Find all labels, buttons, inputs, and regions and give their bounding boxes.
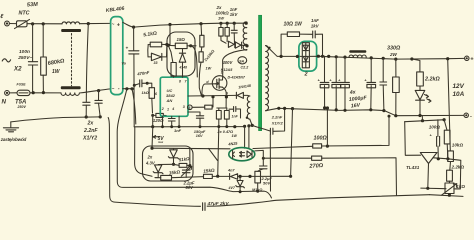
svg-text:1kΩ: 1kΩ — [142, 91, 149, 95]
diode feedback — [230, 174, 238, 180]
svg-text:250V~: 250V~ — [17, 55, 32, 61]
capacitor 2.2uF opto — [260, 166, 268, 169]
bridge rectifier KBL406 green box — [111, 17, 123, 95]
node HV2 — [168, 23, 171, 26]
node bulkneg — [133, 84, 136, 87]
mini bus nodes — [239, 190, 242, 193]
svg-text:1nF: 1nF — [232, 115, 239, 119]
svg-text:100n: 100n — [19, 49, 30, 55]
IC pin2 wire to bus — [162, 116, 164, 126]
svg-text:N: N — [2, 99, 7, 106]
transformer secondary winding — [266, 46, 269, 111]
bus to Y2 cap — [252, 125, 270, 130]
svg-text:100Ω: 100Ω — [429, 124, 441, 129]
top line riser to rail — [421, 116, 423, 121]
trimmer cap — [186, 166, 190, 170]
optocoupler green ellipse — [229, 148, 255, 161]
svg-text:2.2kΩ: 2.2kΩ — [424, 77, 440, 83]
opto right wire — [255, 150, 263, 165]
svg-text:47μF 2kV: 47μF 2kV — [207, 201, 230, 207]
resistor 680k lead top — [42, 24, 44, 57]
svg-text:9A: 9A — [239, 59, 244, 63]
wire bridge negative to bus — [132, 89, 136, 124]
svg-text:270Ω: 270Ω — [308, 163, 324, 170]
node BN2 — [130, 87, 133, 90]
zener 4V7 — [239, 176, 241, 180]
svg-text:ℓ: ℓ — [0, 14, 3, 20]
loop wire V2 bridge minus to bottom — [117, 89, 271, 198]
wire rail to box node — [169, 25, 171, 45]
svg-text:250V: 250V — [17, 105, 27, 109]
capacitor 150uF vcc — [188, 112, 200, 116]
choke winding bottom — [61, 93, 79, 96]
svg-text:2W: 2W — [389, 52, 398, 57]
aux diode 4148 — [236, 92, 243, 98]
secondary snubber loop — [281, 34, 322, 56]
bridge negative wire — [123, 88, 132, 90]
rectifier diode green box — [299, 41, 317, 71]
svg-text:TL431: TL431 — [406, 165, 420, 170]
svg-text:1kΩ: 1kΩ — [456, 184, 465, 189]
secondary rail — [281, 56, 465, 59]
IC pin4 wire to bus — [178, 116, 180, 126]
Y-capacitor 2 — [98, 91, 100, 101]
svg-text:2x: 2x — [147, 155, 153, 160]
5V arrow annotation — [153, 136, 160, 139]
transformer primary winding — [243, 22, 247, 50]
svg-text:4.3V: 4.3V — [145, 161, 156, 166]
bulk capacitor 400V — [133, 27, 135, 50]
svg-text:4148: 4148 — [179, 66, 188, 70]
terminal minus — [464, 113, 468, 117]
aux winding to bus — [250, 119, 252, 125]
wire A opto to 100R — [253, 146, 313, 148]
svg-text:5: 5 — [189, 106, 191, 110]
wire bus drop to wire A — [326, 108, 328, 146]
snubber resistor 10R — [287, 32, 299, 37]
node L3 — [87, 22, 90, 25]
loop wire V3 to zener box — [135, 127, 152, 176]
node R120 left — [151, 114, 154, 117]
choke core bar top — [61, 29, 81, 32]
snubber clamp diodes — [228, 41, 234, 47]
wire bus to feedback node — [218, 127, 219, 177]
svg-text:max: max — [158, 141, 164, 144]
secondary dot mark — [268, 47, 270, 49]
snubber capacitor 1nF 1kV — [233, 23, 235, 30]
wire 51k node riser — [189, 148, 191, 165]
LED — [415, 90, 425, 100]
snubber cap 1nF — [313, 31, 316, 38]
svg-text:1W: 1W — [52, 69, 61, 75]
resistor 120R — [153, 114, 156, 116]
fuse T5A — [17, 90, 30, 95]
TL431 bottom wire — [421, 187, 461, 190]
ground line to Y-caps — [11, 117, 100, 122]
svg-text:2.2kΩ: 2.2kΩ — [451, 164, 465, 169]
svg-text:2: 2 — [304, 72, 308, 78]
diode 4148 — [182, 49, 184, 53]
drain wire to transformer — [223, 50, 247, 77]
MOSFET Q1 — [212, 76, 227, 91]
transformer core green bar — [259, 15, 262, 131]
dual diode module outline — [302, 43, 309, 68]
wire L lead — [9, 23, 16, 25]
wire choke to bridge — [80, 89, 110, 93]
feedback line — [155, 176, 291, 177]
primary ground bus — [134, 126, 245, 128]
svg-text:50V: 50V — [263, 181, 270, 186]
source wire — [217, 87, 227, 108]
svg-text:C2.2: C2.2 — [241, 66, 250, 70]
node N3 — [97, 89, 100, 92]
svg-text:16V: 16V — [351, 103, 361, 110]
svg-text:2.2nF: 2.2nF — [271, 115, 283, 120]
terminal L — [5, 21, 10, 26]
TL431 ref wire — [405, 122, 421, 156]
diode D2 — [148, 56, 167, 58]
ground line tail — [430, 195, 464, 197]
node vcc1 — [146, 82, 149, 85]
svg-text:1: 1 — [167, 108, 169, 112]
svg-text:~: ~ — [112, 86, 115, 91]
svg-text:~: ~ — [112, 22, 115, 27]
node G2 — [99, 115, 102, 118]
capacitor X2 — [28, 62, 37, 65]
capacitor 1nF pin — [171, 116, 173, 118]
svg-text:+: + — [126, 46, 129, 51]
ceramic cap C5 — [382, 57, 385, 60]
svg-text:330Ω: 330Ω — [387, 46, 401, 52]
svg-text:X1/Y2: X1/Y2 — [271, 121, 284, 126]
wire box to IC pin7 — [191, 46, 198, 77]
capacitor 2.2nF Y2 — [270, 128, 273, 134]
node N1 — [32, 91, 35, 94]
capacitor 1nF sense — [229, 108, 233, 110]
svg-text:FUSE: FUSE — [17, 83, 27, 87]
svg-text:1kV: 1kV — [230, 12, 239, 17]
resistor 680k lead bottom — [42, 75, 44, 92]
wire L to choke — [27, 23, 62, 25]
svg-text:4n7: 4n7 — [227, 169, 235, 173]
earth ground symbol — [3, 127, 18, 129]
wire choke to node — [80, 22, 111, 24]
svg-text:100Ω: 100Ω — [314, 136, 328, 142]
label AC squiggle — [2, 59, 10, 62]
svg-text:X1/Y2: X1/Y2 — [82, 136, 97, 142]
zener Z2 — [158, 163, 173, 166]
aux dot mark — [246, 117, 248, 119]
svg-text:1nF: 1nF — [311, 18, 319, 23]
resistor 680k — [41, 57, 47, 75]
output cap C3 — [344, 57, 346, 82]
svg-text:15Ω: 15Ω — [177, 37, 186, 42]
TL431 cathode line — [434, 158, 461, 189]
terminal plus 12V — [465, 56, 469, 60]
secondary top lead — [266, 46, 282, 57]
Y-capacitor 1 — [85, 92, 87, 103]
thermistor NTC — [17, 21, 28, 27]
sense resistor Rs1 — [216, 111, 221, 120]
svg-text:8: 8 — [179, 80, 181, 84]
svg-text:12V: 12V — [453, 83, 465, 90]
svg-text:10A: 10A — [453, 91, 465, 98]
svg-text:33: 33 — [154, 61, 158, 65]
gate wire — [202, 84, 216, 96]
svg-text:zastę/obwód: zastę/obwód — [0, 137, 27, 142]
svg-text:1kV: 1kV — [311, 24, 320, 29]
node HV3 — [199, 22, 202, 25]
output inductor core bar — [349, 50, 366, 53]
capacitor X2 lead bottom — [32, 65, 34, 92]
zener box — [143, 146, 194, 181]
HV+ rail from bridge — [123, 22, 246, 27]
transformer aux winding — [247, 96, 250, 119]
svg-text:-: - — [118, 86, 120, 92]
wire node L3 down to Y-cap — [86, 24, 88, 92]
wire Y2 node down to bottom — [269, 135, 271, 192]
circled pin 5 — [188, 105, 193, 110]
svg-text:4: 4 — [171, 107, 174, 111]
node L1 — [31, 22, 34, 25]
ground link continues — [207, 195, 429, 207]
wire opto collector line — [152, 147, 230, 150]
resistor 2.2k LED — [410, 57, 413, 60]
svg-text:1W: 1W — [232, 134, 238, 138]
capacitor X2 lead top — [32, 24, 34, 62]
svg-text:NTC: NTC — [19, 11, 30, 17]
node bus1 — [151, 125, 154, 128]
svg-text:AN: AN — [166, 98, 173, 103]
TL431 — [420, 153, 437, 164]
svg-text:1nF: 1nF — [174, 128, 182, 133]
zener Z1 — [173, 149, 175, 150]
svg-text:53M: 53M — [27, 2, 39, 9]
node BN1 — [125, 87, 128, 90]
svg-text:X2: X2 — [13, 66, 22, 73]
wire bus to zener — [151, 127, 154, 149]
svg-text:2.2nF: 2.2nF — [83, 128, 98, 134]
choke winding top — [62, 22, 80, 24]
earth ground stub — [10, 122, 12, 127]
svg-text:1W: 1W — [206, 67, 212, 71]
resistor vcc feed — [168, 45, 173, 62]
output cap C4 — [370, 56, 373, 59]
node N2 — [42, 91, 45, 94]
dual diode symbol — [305, 43, 307, 68]
wire N lead — [9, 92, 17, 94]
TL431 top line — [405, 120, 445, 122]
resistor 51k gate — [192, 106, 205, 108]
capacitor 47uF 2kV on ground link — [203, 203, 205, 211]
opto inner symbol — [232, 151, 234, 159]
svg-text:2x: 2x — [216, 5, 222, 10]
secondary bottom lead — [266, 108, 279, 111]
svg-text:D-42A5N7: D-42A5N7 — [228, 76, 246, 80]
node primary top — [245, 22, 248, 25]
compensation cap — [437, 120, 439, 137]
bus nodes right — [233, 125, 236, 128]
wire 12V down to divider — [448, 59, 451, 151]
node G1 — [85, 115, 88, 118]
svg-text:50V: 50V — [186, 185, 195, 190]
terminal N — [5, 91, 10, 96]
PWM IC UC3842 green box — [160, 77, 188, 116]
wire bus to feedback — [291, 109, 293, 177]
resistor 1k vcc — [147, 83, 152, 88]
output cap C2 — [335, 57, 337, 83]
svg-text:+: + — [470, 57, 474, 63]
svg-text:2: 2 — [161, 107, 164, 111]
choke core dashed line — [71, 34, 73, 86]
svg-text:10Ω 1W: 10Ω 1W — [284, 21, 304, 27]
resistor M1k — [255, 171, 261, 183]
svg-text:2x: 2x — [87, 121, 95, 127]
wire B 270R — [263, 157, 311, 159]
svg-text:400V: 400V — [222, 60, 234, 65]
node HV1 — [132, 26, 135, 29]
output inductor — [349, 55, 366, 57]
resistor 100R tl431 — [444, 120, 447, 131]
opto pins from bus — [245, 126, 249, 148]
ground loop V1 down — [108, 118, 200, 207]
node L2 — [42, 22, 45, 25]
wire diagonal branch — [209, 148, 218, 160]
startup resistors 2x15k — [200, 24, 203, 36]
sense resistor Rs2 — [224, 111, 229, 120]
gate drive wire — [188, 94, 236, 97]
svg-text:-: - — [470, 114, 472, 120]
svg-text:K12A5: K12A5 — [221, 68, 233, 72]
svg-text:3: 3 — [183, 105, 185, 109]
svg-text:10kΩ: 10kΩ — [452, 142, 464, 147]
svg-text:4V7: 4V7 — [228, 186, 236, 190]
output cap C1 — [324, 56, 326, 82]
choke core bar bottom — [61, 86, 81, 89]
wire diode branch — [147, 45, 149, 57]
15R gate box — [167, 32, 195, 76]
snubber resistors 2x100k — [219, 22, 222, 25]
wire N to choke — [30, 92, 61, 94]
wire R120 to bus — [152, 115, 154, 126]
secondary ground bus — [279, 108, 464, 115]
svg-text:16V: 16V — [196, 134, 203, 138]
